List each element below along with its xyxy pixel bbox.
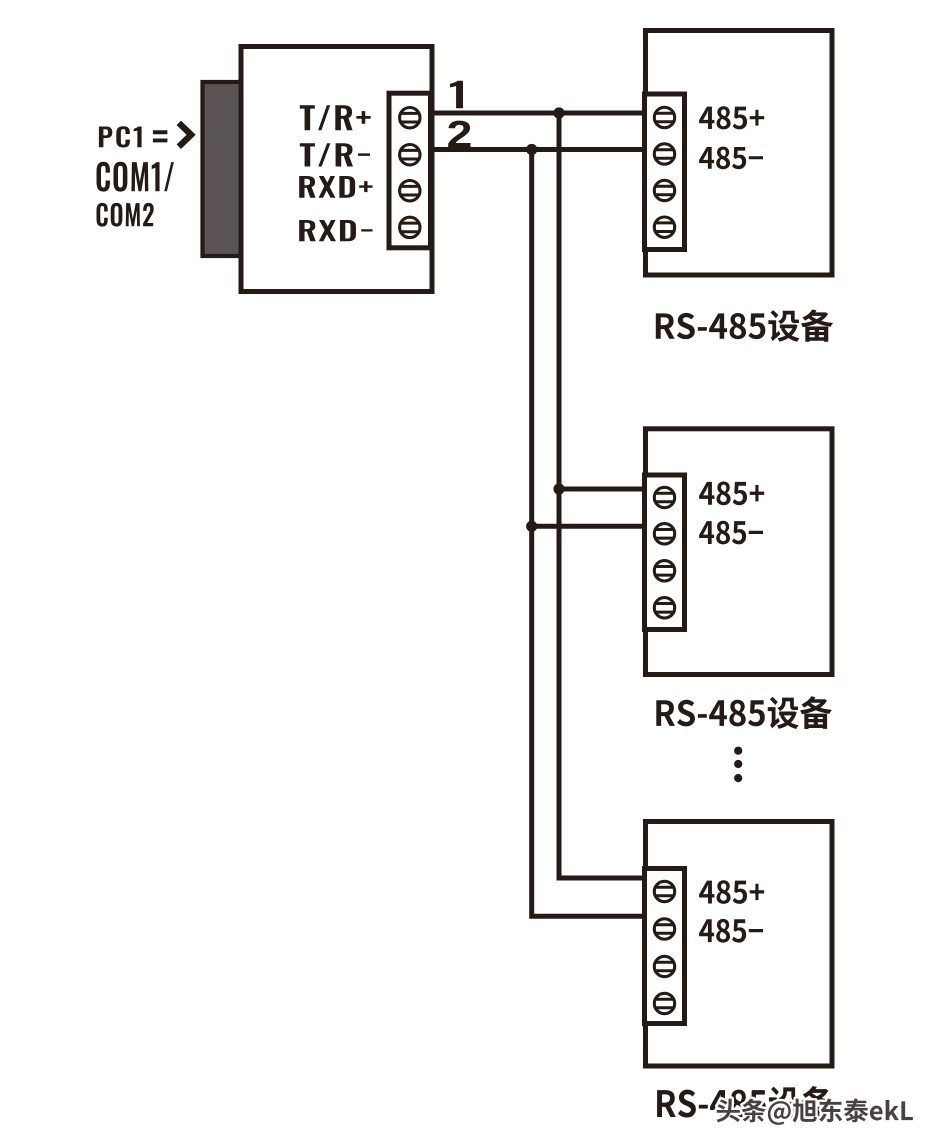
label RXD- xyxy=(299,220,372,241)
screw terminal PC-2 xyxy=(400,145,420,165)
device 2 label 485+ xyxy=(699,482,764,506)
device 3 label 485+ xyxy=(699,880,764,904)
junction dot wire2 top xyxy=(526,144,537,155)
wire 2 branch to device 2 xyxy=(532,524,647,529)
device 1 caption RS-485 xyxy=(656,310,833,342)
screw terminal dev3-4 xyxy=(654,993,674,1013)
wire 2 (T/R- bus) horizontal xyxy=(435,147,648,152)
screw terminal dev1-3 xyxy=(654,180,674,200)
screw terminal PC-3 xyxy=(400,181,420,201)
screw terminal dev1-1 xyxy=(654,107,674,127)
label RXD+ xyxy=(299,176,372,198)
screw terminal dev1-2 xyxy=(654,144,674,164)
wire 1 (T/R+ bus) horizontal xyxy=(435,111,648,116)
screw terminal dev3-3 xyxy=(654,956,674,976)
device 1 terminal block xyxy=(645,94,685,250)
screw terminal dev1-4 xyxy=(654,217,674,237)
screw terminal dev2-2 xyxy=(654,524,674,544)
screw terminal dev2-1 xyxy=(654,487,674,507)
RS-485 device 1 box xyxy=(646,31,833,276)
screw terminal PC-1 xyxy=(400,108,420,128)
RS-485 device 2 box xyxy=(646,429,833,675)
device 2 terminal block xyxy=(645,475,685,630)
arrow chevron xyxy=(179,123,191,147)
screw terminal dev2-4 xyxy=(654,598,674,618)
device 1 label 485+ xyxy=(699,106,764,129)
screw terminal dev3-2 xyxy=(654,919,674,939)
wire 1 vertical drop and branch to device 3 xyxy=(559,113,647,878)
label COM1/ xyxy=(97,162,174,192)
PC converter box xyxy=(241,47,432,292)
device 3 label 485- xyxy=(699,919,763,943)
junction dot wire1 top xyxy=(553,107,564,118)
screw terminal PC-4 xyxy=(400,217,420,237)
device 1 label 485- xyxy=(699,147,763,170)
PC serial connector (gray plug) xyxy=(203,82,242,256)
screw terminal dev2-3 xyxy=(654,561,674,581)
label = sign xyxy=(153,130,168,142)
vertical ellipsis dots xyxy=(734,747,742,783)
label COM2 xyxy=(96,203,153,227)
PC terminal block xyxy=(389,93,431,248)
wire number 2 xyxy=(448,121,470,148)
junction dot wire1 device2 xyxy=(553,483,564,494)
label T/R+ xyxy=(300,105,371,130)
wire 2 vertical drop and branch to device 3 xyxy=(532,150,647,917)
watermark 头条@旭东泰ekL xyxy=(716,1098,912,1124)
device 3 caption RS-485 xyxy=(657,1086,833,1120)
junction dot wire2 device2 xyxy=(526,521,537,532)
device 2 label 485- xyxy=(699,521,763,545)
label T/R- xyxy=(300,143,370,166)
wire number 1 xyxy=(450,81,463,108)
screw terminal dev3-1 xyxy=(654,881,674,901)
wire 1 branch to device 2 xyxy=(559,487,647,492)
RS-485 device 3 box xyxy=(646,822,833,1067)
label PC1 xyxy=(99,126,142,147)
device 2 caption RS-485 xyxy=(656,696,832,729)
device 3 terminal block xyxy=(645,869,685,1024)
